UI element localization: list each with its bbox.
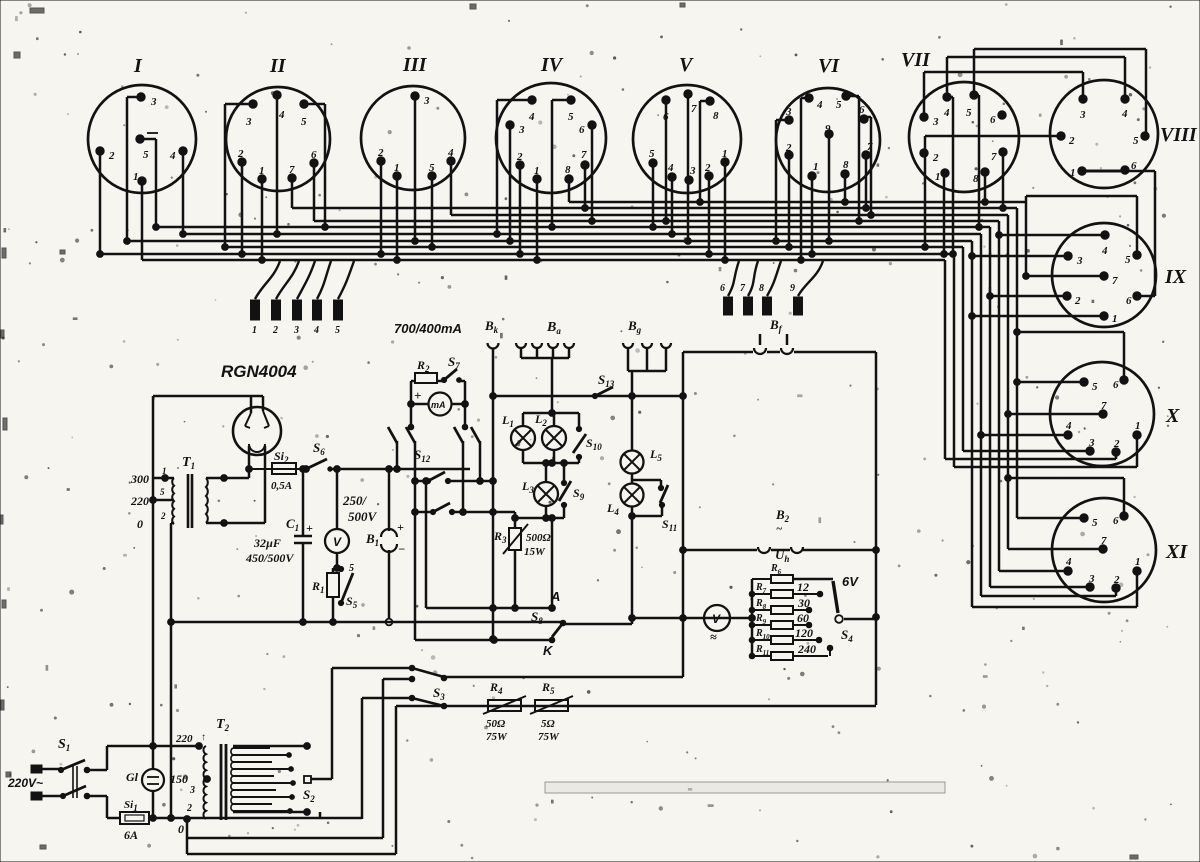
svg-text:5: 5 <box>349 563 354 574</box>
svg-text:1: 1 <box>1070 167 1076 179</box>
svg-text:300: 300 <box>130 472 149 486</box>
svg-text:1: 1 <box>252 325 257 336</box>
svg-text:3: 3 <box>189 785 195 796</box>
svg-text:2: 2 <box>1068 135 1075 147</box>
svg-text:3: 3 <box>150 96 157 108</box>
svg-text:3: 3 <box>423 95 430 107</box>
svg-text:500Ω: 500Ω <box>526 532 552 544</box>
svg-text:3: 3 <box>1076 255 1083 267</box>
svg-text:240: 240 <box>797 642 816 656</box>
svg-text:2: 2 <box>1113 438 1120 450</box>
svg-text:5: 5 <box>966 107 972 119</box>
svg-text:5: 5 <box>335 325 340 336</box>
svg-text:5: 5 <box>836 99 842 111</box>
svg-text:12: 12 <box>797 580 809 594</box>
svg-text:4: 4 <box>447 147 454 159</box>
svg-text:≈: ≈ <box>710 630 717 644</box>
svg-text:V: V <box>333 535 342 549</box>
svg-text:6: 6 <box>663 111 669 123</box>
svg-text:1: 1 <box>394 162 400 174</box>
svg-text:9: 9 <box>825 123 831 135</box>
svg-text:6: 6 <box>859 104 865 116</box>
svg-text:3: 3 <box>518 124 525 136</box>
svg-text:4: 4 <box>528 111 535 123</box>
svg-text:4: 4 <box>1065 420 1072 432</box>
svg-text:mA: mA <box>431 400 446 410</box>
svg-text:XI: XI <box>1165 541 1188 563</box>
svg-text:+: + <box>306 521 313 535</box>
svg-text:1: 1 <box>133 171 139 183</box>
svg-text:1: 1 <box>1112 313 1118 325</box>
svg-text:6V: 6V <box>842 574 859 589</box>
svg-text:2: 2 <box>237 148 244 160</box>
svg-text:7: 7 <box>1101 400 1107 412</box>
svg-text:7: 7 <box>1101 535 1107 547</box>
svg-text:2: 2 <box>785 142 792 154</box>
svg-text:250/: 250/ <box>342 493 368 508</box>
svg-text:VII: VII <box>901 49 931 71</box>
svg-text:6: 6 <box>311 149 317 161</box>
svg-text:Gl: Gl <box>126 770 139 784</box>
svg-text:700/400mA: 700/400mA <box>394 321 462 336</box>
svg-text:3: 3 <box>932 116 939 128</box>
svg-text:4: 4 <box>1065 556 1072 568</box>
svg-text:4: 4 <box>1121 108 1128 120</box>
svg-text:7: 7 <box>691 103 697 115</box>
svg-text:5: 5 <box>568 111 574 123</box>
svg-text:3: 3 <box>1088 573 1095 585</box>
svg-text:4: 4 <box>1101 245 1108 257</box>
svg-text:2: 2 <box>186 803 192 814</box>
svg-text:II: II <box>269 55 287 77</box>
svg-text:1: 1 <box>813 161 819 173</box>
svg-text:4: 4 <box>313 325 319 336</box>
svg-text:3: 3 <box>245 116 252 128</box>
svg-text:1: 1 <box>534 165 540 177</box>
svg-text:4: 4 <box>667 162 674 174</box>
svg-text:1: 1 <box>259 165 265 177</box>
svg-text:4: 4 <box>278 109 285 121</box>
svg-text:7: 7 <box>991 151 997 163</box>
svg-text:−: − <box>398 542 405 556</box>
svg-text:1: 1 <box>162 466 167 476</box>
svg-text:8: 8 <box>843 159 849 171</box>
svg-text:VIII: VIII <box>1160 124 1198 146</box>
svg-text:5: 5 <box>1125 254 1131 266</box>
svg-text:5: 5 <box>1133 135 1139 147</box>
svg-text:V: V <box>679 54 694 76</box>
svg-text:IX: IX <box>1164 266 1187 288</box>
svg-text:4: 4 <box>943 107 950 119</box>
svg-text:220: 220 <box>175 733 193 745</box>
svg-text:5: 5 <box>649 148 655 160</box>
svg-text:450/500V: 450/500V <box>245 551 294 565</box>
svg-text:3: 3 <box>1079 109 1086 121</box>
svg-text:5: 5 <box>301 116 307 128</box>
svg-text:500V: 500V <box>348 509 378 524</box>
svg-text:6: 6 <box>1131 160 1137 172</box>
svg-text:5: 5 <box>429 162 435 174</box>
svg-text:0: 0 <box>178 822 184 836</box>
svg-text:32µF: 32µF <box>253 536 281 550</box>
svg-text:2: 2 <box>160 511 166 521</box>
svg-text:8: 8 <box>759 283 764 294</box>
svg-text:220V~: 220V~ <box>7 776 43 790</box>
svg-text:7: 7 <box>289 164 295 176</box>
svg-text:8: 8 <box>565 164 571 176</box>
svg-text:6: 6 <box>1113 379 1119 391</box>
svg-text:1: 1 <box>722 148 728 160</box>
svg-text:6: 6 <box>579 124 585 136</box>
svg-text:1: 1 <box>935 171 941 183</box>
svg-text:3: 3 <box>785 106 792 118</box>
svg-text:VI: VI <box>818 55 840 77</box>
svg-text:RGN4004: RGN4004 <box>221 362 297 381</box>
svg-text:5: 5 <box>1092 381 1098 393</box>
svg-text:120: 120 <box>795 626 813 640</box>
svg-text:3: 3 <box>689 165 696 177</box>
svg-text:7: 7 <box>581 149 587 161</box>
svg-text:220: 220 <box>130 494 149 508</box>
svg-text:6A: 6A <box>124 828 138 842</box>
svg-text:9: 9 <box>790 283 795 294</box>
svg-text:2: 2 <box>377 147 384 159</box>
svg-text:~: ~ <box>776 523 783 535</box>
svg-text:5Ω: 5Ω <box>541 718 556 730</box>
svg-text:6: 6 <box>720 283 725 294</box>
svg-text:4: 4 <box>816 99 823 111</box>
svg-text:7: 7 <box>867 141 873 153</box>
svg-text:+: + <box>397 520 404 534</box>
svg-text:7: 7 <box>1112 275 1118 287</box>
svg-text:0: 0 <box>137 517 143 531</box>
svg-text:2: 2 <box>704 162 711 174</box>
svg-text:↑: ↑ <box>201 732 206 743</box>
svg-text:5: 5 <box>143 149 149 161</box>
svg-text:3: 3 <box>1088 437 1095 449</box>
svg-text:2: 2 <box>272 325 278 336</box>
svg-text:75W: 75W <box>486 731 508 743</box>
svg-text:8: 8 <box>973 173 979 185</box>
svg-text:2: 2 <box>1074 295 1081 307</box>
svg-text:5: 5 <box>160 487 165 497</box>
svg-text:+: + <box>414 388 421 403</box>
svg-text:2: 2 <box>932 152 939 164</box>
svg-text:I: I <box>133 55 143 77</box>
svg-text:6: 6 <box>990 114 996 126</box>
svg-text:50Ω: 50Ω <box>486 718 506 730</box>
svg-text:6: 6 <box>1113 515 1119 527</box>
svg-text:3: 3 <box>293 325 299 336</box>
svg-text:K: K <box>543 643 554 658</box>
svg-text:75W: 75W <box>538 731 560 743</box>
svg-text:15W: 15W <box>524 546 546 558</box>
svg-text:2: 2 <box>516 151 523 163</box>
svg-text:III: III <box>402 54 428 76</box>
svg-text:4: 4 <box>169 150 176 162</box>
svg-text:2: 2 <box>1113 574 1120 586</box>
svg-text:6: 6 <box>1126 295 1132 307</box>
svg-text:5: 5 <box>1092 517 1098 529</box>
svg-text:0,5A: 0,5A <box>271 480 292 492</box>
svg-text:IV: IV <box>540 54 564 76</box>
svg-text:8: 8 <box>713 110 719 122</box>
svg-text:1: 1 <box>1135 420 1141 432</box>
svg-text:1: 1 <box>1135 556 1141 568</box>
svg-text:2: 2 <box>108 150 115 162</box>
svg-text:A: A <box>550 589 560 604</box>
